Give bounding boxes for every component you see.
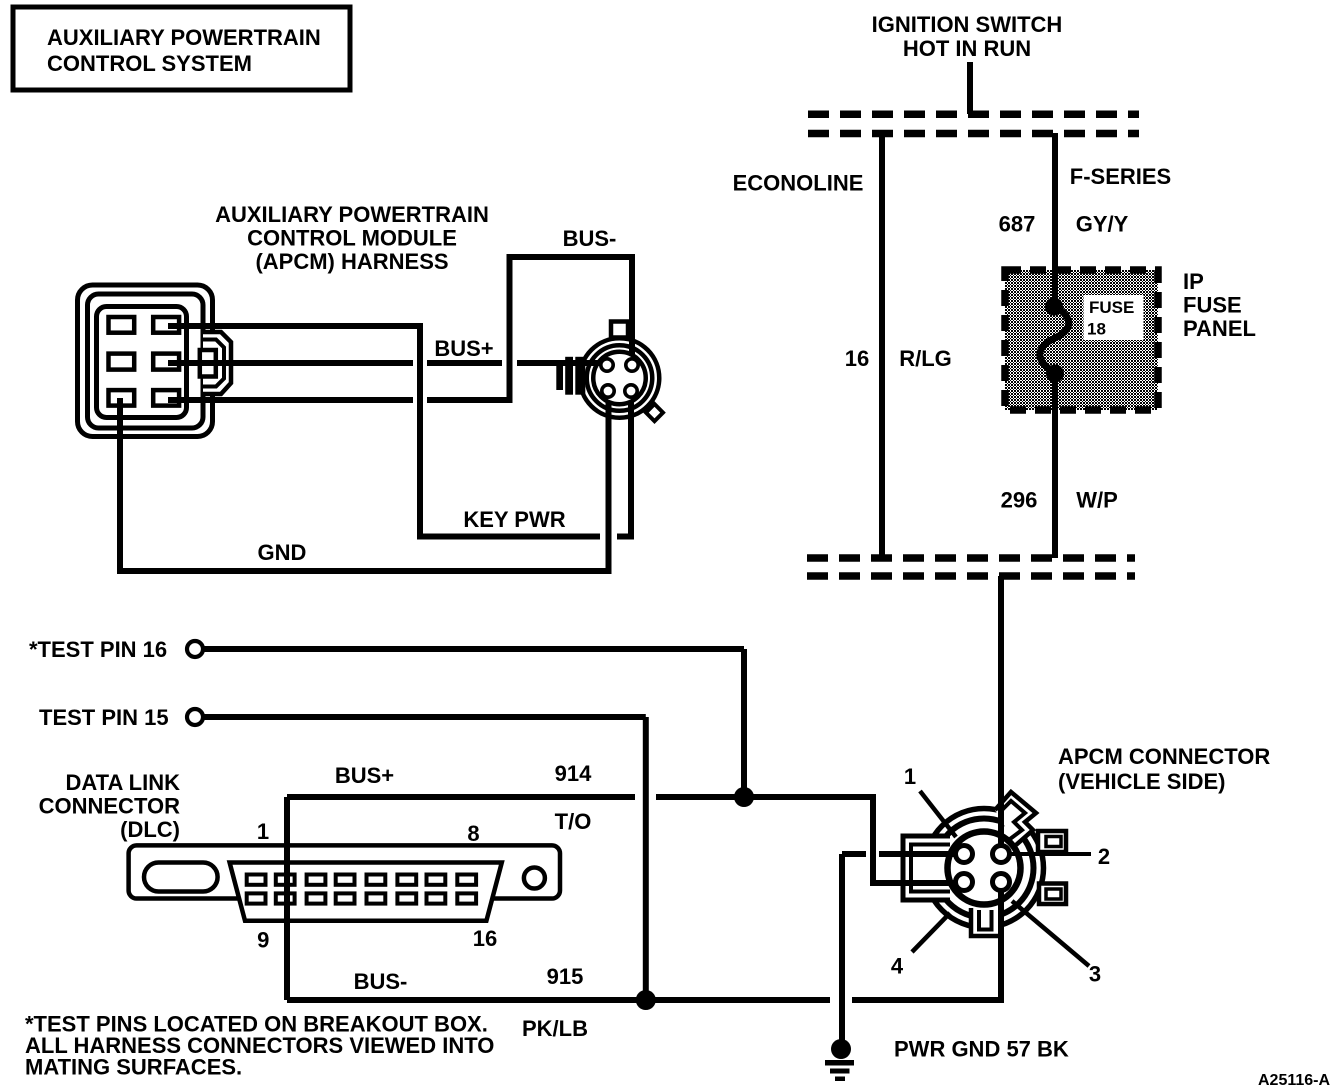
svg-text:2: 2 [1098, 844, 1110, 869]
svg-text:(VEHICLE SIDE): (VEHICLE SIDE) [1058, 769, 1225, 794]
svg-text:T/O: T/O [555, 809, 592, 834]
svg-text:PWR GND 57 BK: PWR GND 57 BK [894, 1037, 1069, 1062]
svg-text:FUSE: FUSE [1183, 293, 1242, 318]
svg-text:GND: GND [258, 540, 307, 565]
svg-text:915: 915 [547, 964, 584, 989]
APCM module 6-pin connector body [78, 285, 213, 437]
wire BUS- row3 to harness pin UR [427, 257, 632, 400]
label APCM CONNECTOR (VEHICLE SIDE) [1058, 744, 1270, 794]
wire 296 W/P lower [1052, 373, 1058, 558]
svg-text:AUXILIARY POWERTRAIN: AUXILIARY POWERTRAIN [215, 202, 489, 227]
wire econoline 16 R/LG [879, 133, 885, 558]
FUSE 18 white label box [1084, 295, 1144, 340]
vehicle connector bottom notch [971, 908, 1001, 936]
svg-text:GY/Y: GY/Y [1076, 212, 1129, 237]
svg-text:F-SERIES: F-SERIES [1070, 164, 1171, 189]
label IP FUSE PANEL [1183, 269, 1256, 341]
ground symbol [825, 1039, 854, 1081]
label DATA LINK CONNECTOR (DLC) [39, 770, 180, 842]
svg-text:R/LG: R/LG [899, 346, 952, 371]
svg-text:W/P: W/P [1076, 488, 1118, 513]
svg-text:KEY PWR: KEY PWR [463, 507, 565, 532]
6-pin connector pins [109, 317, 180, 406]
leader line pin 4 [912, 913, 950, 952]
svg-text:*TEST PIN 16: *TEST PIN 16 [29, 637, 167, 662]
wire DLC left vertical [284, 797, 290, 1000]
harness connector bottom-right lug [646, 404, 663, 421]
vehicle connector key notch [995, 792, 1036, 845]
svg-text:BUS-: BUS- [354, 969, 408, 994]
wire DLC BUS+ 914 segment a [287, 794, 635, 800]
wire 687 into fuse [1052, 268, 1058, 308]
wire DLC BUS- 915 segment a [287, 997, 830, 1003]
svg-text:16: 16 [845, 346, 869, 371]
IP fuse panel box [1005, 270, 1158, 410]
svg-text:BUS+: BUS+ [434, 336, 493, 361]
DLC pins row 9-16 [247, 893, 476, 903]
svg-text:AUXILIARY POWERTRAIN: AUXILIARY POWERTRAIN [47, 25, 321, 50]
svg-text:A25116-A: A25116-A [1258, 1072, 1330, 1089]
junction dot test pin 15 [636, 990, 656, 1010]
title box AUXILIARY POWERTRAIN CONTROL SYSTEM [13, 7, 350, 90]
harness connector pins [601, 359, 638, 397]
wire DLC BUS- 915 segment b to APCM pin 3 [852, 886, 1001, 1000]
svg-text:9: 9 [257, 928, 269, 953]
svg-text:18: 18 [1087, 320, 1106, 339]
vehicle connector right tab lower [1039, 884, 1066, 905]
APCM vehicle side 4-pin connector body [903, 792, 1066, 936]
svg-text:4: 4 [891, 954, 904, 979]
svg-text:TEST PIN 15: TEST PIN 15 [39, 705, 169, 730]
wire DLC BUS+ 914 segment b to APCM pin 4 [656, 797, 959, 883]
vehicle connector left tab [903, 836, 950, 900]
svg-text:CONTROL MODULE: CONTROL MODULE [247, 226, 457, 251]
svg-text:CONTROL SYSTEM: CONTROL SYSTEM [47, 51, 252, 76]
svg-text:FUSE: FUSE [1089, 298, 1134, 317]
wire BUS+ row2 segment a [168, 360, 413, 366]
wire BUS+ row2 segment c [517, 360, 604, 366]
wire BUS+ row2 segment b [427, 360, 502, 366]
vehicle connector right tab upper [1038, 831, 1066, 852]
vehicle connector inner circle [948, 832, 1021, 905]
svg-text:PANEL: PANEL [1183, 316, 1256, 341]
leader line pin 3 [1012, 901, 1089, 966]
wire splice output to APCM pin 2 [998, 576, 1004, 854]
svg-text:PK/LB: PK/LB [522, 1016, 588, 1041]
svg-text:(DLC): (DLC) [120, 817, 180, 842]
note test pins [25, 1012, 494, 1080]
svg-text:687: 687 [999, 212, 1036, 237]
vehicle connector pins [956, 846, 1010, 891]
test pin 16 terminal [29, 637, 744, 795]
wire BUS- row3 segment a [168, 397, 413, 403]
svg-text:BUS-: BUS- [563, 226, 617, 251]
svg-text:MATING SURFACES.: MATING SURFACES. [25, 1055, 242, 1080]
svg-text:8: 8 [467, 821, 479, 846]
label APCM harness [215, 202, 489, 274]
svg-text:ECONOLINE: ECONOLINE [733, 171, 864, 196]
svg-text:HOT IN RUN: HOT IN RUN [903, 36, 1031, 61]
svg-text:IGNITION SWITCH: IGNITION SWITCH [872, 12, 1063, 37]
svg-text:(APCM) HARNESS: (APCM) HARNESS [255, 249, 448, 274]
test pin 15 terminal [39, 705, 646, 1000]
leader line pin 1 [920, 791, 956, 837]
DLC pins row 1-8 [247, 875, 476, 885]
svg-text:1: 1 [904, 764, 916, 789]
svg-text:DATA LINK: DATA LINK [66, 770, 181, 795]
fuse 18 element [1040, 298, 1069, 383]
splice bus upper dashed pair [808, 114, 1139, 133]
wire DLC pass-through vertical [284, 845, 290, 1000]
wire KEY PWR hook to harness pin LR [617, 394, 631, 537]
svg-text:16: 16 [473, 926, 497, 951]
wire leader pin 2 [998, 849, 1004, 854]
wire GND loop [120, 395, 609, 571]
wire f-series 687 GY/Y upper [1052, 133, 1058, 308]
data link connector body [129, 845, 560, 920]
svg-text:3: 3 [1089, 962, 1101, 987]
wire PWR GND to ground [842, 854, 959, 1041]
junction dot test pin 16 [734, 787, 754, 807]
svg-text:1: 1 [257, 819, 269, 844]
svg-text:IP: IP [1183, 269, 1204, 294]
wire KEY PWR from pin row1 [168, 326, 600, 537]
svg-text:296: 296 [1001, 488, 1038, 513]
svg-text:BUS+: BUS+ [335, 763, 394, 788]
6-pin connector keyway notch [200, 332, 231, 394]
harness connector left tab bars [556, 361, 563, 390]
label IGNITION SWITCH HOT IN RUN [872, 12, 1063, 61]
APCM harness 4-pin round connector [556, 322, 663, 422]
wire ignition switch stub [967, 62, 973, 114]
svg-text:CONNECTOR: CONNECTOR [39, 794, 180, 819]
splice bus lower dashed pair [807, 558, 1135, 576]
wire stubs into harness pins [586, 360, 604, 366]
svg-text:APCM CONNECTOR: APCM CONNECTOR [1058, 744, 1270, 769]
svg-text:914: 914 [555, 761, 592, 786]
